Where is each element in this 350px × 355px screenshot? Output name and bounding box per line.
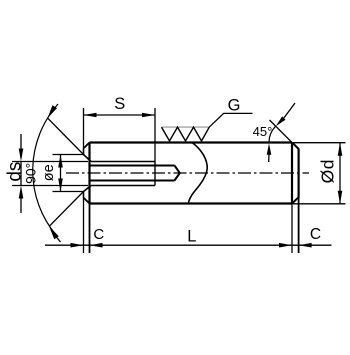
90 deg arc top arrow (48, 105, 57, 118)
countersink cone extension bottom (49, 192, 83, 227)
phi-e dimension line (60, 155, 62, 192)
L / right C arrows (279, 243, 292, 248)
svg-text:G: G (228, 96, 241, 114)
left bottom chamfer (84, 198, 90, 204)
left chamfer junction line (88, 143, 90, 204)
thread end line (154, 162, 156, 186)
phi-e extension line bottom (53, 191, 85, 193)
drill point cone (175, 166, 180, 181)
countersink cone extension top (48, 118, 84, 154)
svg-text:Ød: Ød (318, 159, 338, 183)
right L extension line (right junction) (291, 204, 293, 254)
pilot hole bottom line (91, 180, 175, 182)
svg-text:øe: øe (41, 164, 57, 181)
right top chamfer (292, 143, 299, 149)
phi-d dimension line (339, 143, 341, 204)
G leader line (209, 113, 252, 127)
ds dimension line (20, 162, 22, 186)
90 deg arc bottom arrow (49, 226, 59, 239)
thread profile zigzag (162, 127, 210, 141)
45 deg arc (269, 126, 276, 142)
right chamfer junction line (291, 143, 293, 204)
90 deg dimension arc (33, 104, 58, 235)
svg-text:45°: 45° (253, 124, 273, 139)
break wavy line (188, 143, 207, 204)
left end face (83, 148, 85, 155)
chamfer extension line (270, 120, 293, 143)
right C extension line (right face) (298, 198, 300, 253)
pin body bottom edge (90, 202, 293, 204)
phi-d extension line top (293, 142, 346, 144)
countersink cone top (84, 155, 92, 162)
left C arrows (71, 243, 84, 248)
45 deg upper arrow (284, 103, 295, 118)
45 deg lower arrow (268, 154, 270, 162)
phi-e extension line top (53, 154, 85, 156)
svg-text:S: S (114, 95, 125, 113)
svg-text:L: L (187, 227, 196, 245)
svg-text:C: C (310, 226, 321, 243)
thread crest line (thin gray) (162, 126, 210, 128)
right bottom chamfer (292, 197, 299, 203)
left top chamfer (84, 143, 90, 149)
S right extension line / thread depth (154, 108, 156, 162)
thread major diameter bottom line (91, 185, 155, 187)
phi-d extension line bottom (293, 203, 346, 205)
svg-text:ds: ds (4, 162, 25, 182)
right end face (298, 148, 300, 197)
pin body top edge (90, 141, 293, 143)
bottom dimension line (45, 244, 332, 246)
pilot hole top line (91, 165, 175, 167)
centerline (66, 172, 309, 174)
svg-text:C: C (93, 226, 104, 243)
thread major diameter top line (91, 161, 155, 163)
ds extension line top (12, 161, 88, 163)
S left extension line (83, 108, 85, 148)
countersink cone bottom (84, 186, 92, 192)
ds extension line bottom (12, 185, 88, 187)
left C / L extension line (pin left junction) (89, 204, 91, 254)
S dimension line (84, 114, 156, 116)
